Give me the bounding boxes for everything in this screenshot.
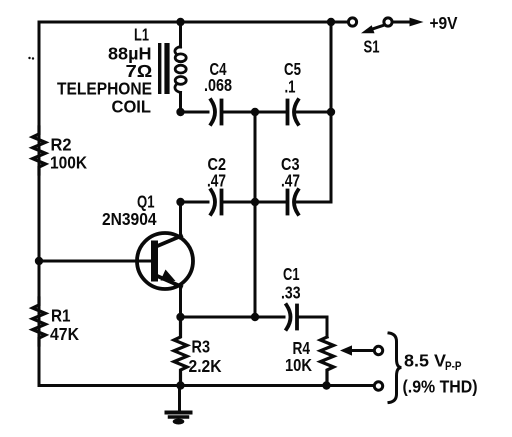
- capacitor C1: [287, 305, 298, 329]
- wire to +9V: [393, 21, 414, 24]
- svg-text:C1: C1: [283, 264, 300, 284]
- capacitor C2: [211, 190, 222, 214]
- wire emitter: [179, 287, 182, 318]
- svg-text:L1: L1: [134, 25, 149, 45]
- svg-text:10K: 10K: [285, 355, 312, 375]
- wire bottom rail: [39, 384, 374, 387]
- node dot top of L1: [176, 18, 184, 26]
- svg-text:(.9% THD): (.9% THD): [403, 377, 478, 397]
- svg-text:100K: 100K: [50, 153, 87, 173]
- svg-text:.068: .068: [204, 75, 232, 95]
- capacitor C4: [211, 100, 222, 124]
- node dot base left: [35, 257, 43, 265]
- switch S1 terminal circle left: [348, 18, 356, 26]
- svg-text:S1: S1: [364, 37, 380, 57]
- node dot collector row: [176, 198, 184, 206]
- switch S1 arm arrowhead: [361, 25, 375, 33]
- ground bottom blob: [173, 419, 185, 425]
- svg-text:R3: R3: [192, 337, 211, 357]
- svg-text:.47: .47: [281, 171, 300, 191]
- switch S1 arm: [368, 25, 385, 31]
- wire R4 wiper: [349, 349, 374, 352]
- svg-text:.33: .33: [281, 283, 301, 303]
- wire C1 to R4: [326, 317, 329, 337]
- switch S1 terminal circle right: [384, 18, 392, 26]
- resistor R2: [33, 127, 46, 174]
- resistor R1: [33, 298, 46, 345]
- svg-text:8.5 V: 8.5 V: [404, 351, 446, 371]
- output terminal circle lower: [374, 382, 382, 390]
- wire collector: [179, 202, 182, 238]
- node dot R4 bottom: [322, 381, 330, 389]
- resistor R4 potentiometer: [320, 337, 333, 386]
- svg-text:2.2K: 2.2K: [189, 356, 222, 376]
- svg-text:R2: R2: [51, 135, 72, 155]
- node dot C4-C5 mid: [251, 108, 259, 116]
- wire C2/C3 row: [181, 201, 209, 204]
- svg-text:+9V: +9V: [430, 13, 458, 33]
- node dot emitter row mid: [251, 313, 259, 321]
- wire left rail: [38, 22, 41, 386]
- resistor R3: [174, 317, 187, 386]
- output brace: [389, 333, 402, 403]
- wire base: [39, 260, 151, 263]
- svg-text:TELEPHONE: TELEPHONE: [57, 79, 152, 99]
- svg-text:47K: 47K: [50, 324, 79, 344]
- wire emitter row: [181, 316, 285, 319]
- svg-text:P-P: P-P: [445, 361, 462, 373]
- node dot top right: [327, 18, 335, 26]
- node dot emitter: [176, 313, 184, 321]
- inductor L1 coil: [175, 47, 186, 93]
- node dot C2-C3 mid: [251, 198, 259, 206]
- speck marks (scan noise): [28, 57, 30, 59]
- wire top rail: [39, 21, 348, 24]
- svg-text:.1: .1: [285, 77, 296, 97]
- node dot C5 right: [327, 108, 335, 116]
- node dot R3 bottom: [176, 381, 184, 389]
- svg-text:R1: R1: [51, 306, 71, 326]
- svg-text:COIL: COIL: [112, 97, 152, 117]
- node dot L1 bottom: [176, 108, 184, 116]
- inductor L1 core bars: [158, 43, 170, 94]
- R4 wiper arrowhead: [340, 345, 352, 355]
- wire right column: [330, 22, 333, 202]
- capacitor C3: [288, 190, 299, 214]
- transistor Q1 base bar: [151, 241, 158, 282]
- wire inductor branch bottom: [179, 93, 182, 113]
- capacitor C5: [288, 100, 299, 124]
- ground: [167, 386, 191, 418]
- svg-text:.47: .47: [207, 171, 226, 191]
- wire inductor branch top: [179, 22, 182, 47]
- svg-text:2N3904: 2N3904: [102, 209, 157, 229]
- transistor Q1 emitter arrow: [161, 270, 176, 282]
- +9V arrowhead: [410, 18, 424, 27]
- wire middle vertical: [254, 112, 257, 317]
- output terminal circle upper: [374, 346, 382, 354]
- wire C4/C5 row: [181, 111, 209, 114]
- transistor Q1: [137, 233, 193, 289]
